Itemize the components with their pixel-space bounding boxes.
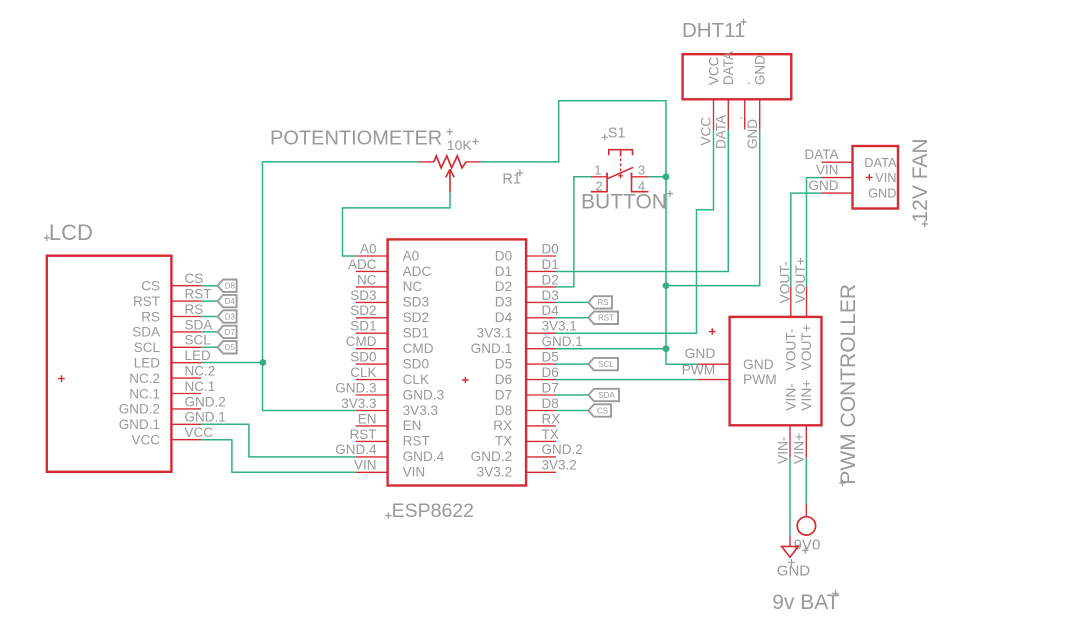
wire DHT11 VCC to ESP 3V3.1 [556, 130, 714, 334]
svg-text:VIN: VIN [816, 162, 839, 177]
svg-text:SD1: SD1 [350, 319, 376, 334]
9v BAT title label [772, 590, 839, 614]
potentiometer R1 resistor body [419, 156, 481, 193]
wire LCD VCC to ESP VIN [201, 440, 356, 473]
svg-text:VCC: VCC [131, 433, 160, 448]
net flag D4 [218, 295, 237, 307]
wire net CS to flag D8 [201, 285, 218, 287]
ground symbol GND [777, 536, 811, 580]
svg-text:POTENTIOMETER: POTENTIOMETER [270, 127, 442, 149]
wire LCD LED pin to junction [201, 362, 263, 364]
DHT11 pin stubs and labels [699, 99, 760, 149]
svg-text:VIN+: VIN+ [799, 380, 814, 411]
svg-text:D4: D4 [542, 303, 560, 318]
svg-text:CS: CS [597, 406, 608, 415]
svg-text:GND.2: GND.2 [119, 402, 160, 417]
svg-text:SCL: SCL [134, 340, 161, 355]
PWM CONTROLLER title label (rotated) [837, 284, 860, 486]
net flag SCL [588, 358, 618, 370]
svg-text:GND.2: GND.2 [185, 394, 226, 409]
svg-text:DATA: DATA [804, 147, 838, 162]
svg-text:CS: CS [185, 271, 204, 286]
svg-text:GND: GND [753, 55, 768, 85]
svg-text:SDA: SDA [132, 325, 160, 340]
svg-text:NC.2: NC.2 [129, 371, 160, 386]
wire button pin 1 to ESP D2 [556, 177, 591, 287]
svg-text:CLK: CLK [350, 365, 376, 380]
PWM controller pin stubs and labels [682, 257, 808, 464]
svg-text:1: 1 [594, 163, 601, 178]
svg-text:D8: D8 [542, 396, 559, 411]
svg-text:TX: TX [542, 427, 559, 442]
svg-text:D3: D3 [225, 312, 236, 321]
junction node LED net [260, 359, 267, 366]
svg-text:CMD: CMD [346, 334, 377, 349]
svg-text:10K: 10K [447, 137, 473, 153]
svg-text:.: . [738, 81, 753, 85]
svg-text:SD3: SD3 [403, 295, 429, 310]
svg-text:ADC: ADC [348, 257, 377, 272]
svg-text:SD0: SD0 [403, 356, 430, 371]
svg-text:RS: RS [185, 302, 204, 317]
wire PWM VIN+ down to 9V0 supply [805, 458, 807, 504]
wire DHT11 GND down to ground net junction [666, 130, 760, 286]
svg-text:LED: LED [134, 356, 161, 371]
svg-text:GND: GND [777, 563, 811, 580]
net flag SDA [588, 389, 619, 401]
wire junction down to ESP 3V3.3 [263, 363, 356, 411]
svg-text:D8: D8 [225, 282, 236, 291]
svg-text:RST: RST [350, 427, 377, 442]
svg-text:EN: EN [403, 418, 422, 433]
svg-text:DATA: DATA [714, 115, 729, 149]
svg-text:GND.3: GND.3 [403, 387, 445, 402]
value label 10K [447, 137, 479, 153]
svg-text:3V3.2: 3V3.2 [477, 465, 513, 480]
wire net CS to flag [556, 410, 588, 412]
svg-text:VIN-: VIN- [775, 436, 790, 464]
svg-text:3V3.2: 3V3.2 [542, 458, 577, 473]
svg-text:GND.1: GND.1 [542, 334, 583, 349]
svg-text:RST: RST [598, 314, 614, 323]
svg-text:D7: D7 [225, 328, 235, 337]
svg-text:3V3.3: 3V3.3 [403, 403, 439, 418]
svg-text:GND.1: GND.1 [471, 341, 513, 356]
wire ground net vertical from button to PWM GND [666, 177, 697, 364]
svg-text:SD0: SD0 [350, 350, 376, 365]
sensor DHT11 body [683, 51, 792, 99]
svg-text:CMD: CMD [403, 341, 434, 356]
svg-text:SD2: SD2 [350, 303, 376, 318]
svg-text:EN: EN [358, 411, 377, 426]
S1 designator label [602, 126, 626, 142]
svg-text:2: 2 [595, 178, 602, 193]
svg-text:GND: GND [743, 357, 774, 372]
svg-text:D5: D5 [495, 356, 512, 371]
svg-text:GND: GND [809, 178, 839, 193]
wire LCD GND.1 to ESP GND.4 [201, 424, 356, 457]
ESP8622 right pin stubs and labels [526, 241, 583, 472]
svg-text:4: 4 [638, 178, 645, 193]
wire potentiometer left lead down to LED junction [263, 162, 419, 363]
svg-text:3V3.1: 3V3.1 [542, 319, 577, 334]
svg-text:PWM: PWM [743, 372, 777, 387]
wire net SDA to flag [556, 394, 588, 396]
svg-text:VIN: VIN [875, 170, 896, 185]
svg-text:9v BAT: 9v BAT [772, 591, 839, 614]
svg-text:DATA: DATA [864, 155, 897, 170]
svg-text:D0: D0 [495, 248, 513, 263]
svg-text:SD3: SD3 [350, 288, 376, 303]
svg-text:D7: D7 [495, 387, 512, 402]
svg-text:D0: D0 [542, 241, 559, 256]
wire net SCL to flag [556, 363, 588, 365]
svg-text:NC.2: NC.2 [185, 364, 216, 379]
svg-text:RST: RST [185, 287, 212, 302]
svg-text:DHT11: DHT11 [682, 19, 745, 42]
wire ESP GND.1 to ground net [556, 348, 666, 350]
svg-text:D2: D2 [542, 272, 559, 287]
wire 12V FAN VIN to PWM VOUT+ [807, 178, 822, 287]
svg-text:LCD: LCD [49, 220, 93, 245]
svg-text:CLK: CLK [403, 372, 429, 387]
net flag RST [588, 312, 618, 324]
svg-text:NC: NC [357, 272, 377, 287]
svg-text:VCC: VCC [699, 117, 714, 146]
wire net RST to flag D4 [201, 300, 218, 302]
svg-text:ADC: ADC [403, 264, 432, 279]
svg-text:D6: D6 [495, 372, 512, 387]
DHT11 title label [682, 19, 747, 43]
svg-text:D3: D3 [495, 295, 512, 310]
designator label R1 [502, 170, 523, 188]
BUTTON title label [581, 190, 673, 213]
svg-text:NC.1: NC.1 [129, 386, 160, 401]
svg-text:NC.1: NC.1 [185, 379, 216, 394]
wire 12V FAN GND to PWM VOUT- [791, 193, 822, 286]
svg-text:SDA: SDA [598, 391, 615, 400]
svg-text:SCL: SCL [598, 360, 614, 369]
svg-text:SCL: SCL [185, 333, 212, 348]
svg-text:PWM CONTROLLER: PWM CONTROLLER [837, 284, 860, 485]
junction node ESP GND.1 [663, 345, 670, 352]
junction node button pin 3 ground net [663, 173, 670, 180]
svg-text:VIN-: VIN- [783, 383, 798, 411]
net flag D8 [218, 280, 237, 292]
svg-text:RX: RX [542, 411, 561, 426]
svg-text:VCC: VCC [185, 425, 214, 440]
svg-text:D1: D1 [495, 264, 512, 279]
svg-text:LED: LED [185, 348, 212, 363]
wire potentiometer right lead up and over to button pin 3 [481, 101, 666, 177]
svg-text:GND.4: GND.4 [335, 442, 377, 457]
svg-text:SD2: SD2 [403, 310, 429, 325]
svg-text:RX: RX [493, 418, 512, 433]
wire net RS to flag [556, 301, 588, 303]
svg-text:TX: TX [495, 434, 512, 449]
svg-text:3: 3 [638, 163, 645, 178]
fan module body [853, 146, 899, 209]
svg-text:GND: GND [745, 119, 760, 149]
svg-text:VIN: VIN [354, 458, 377, 473]
12V FAN title label (rotated) [909, 138, 932, 227]
wire net RST to flag [556, 317, 588, 319]
svg-text:RS: RS [598, 298, 609, 307]
wire net SDA to flag D7 [201, 331, 218, 333]
svg-text:S1: S1 [608, 126, 626, 142]
svg-text:VCC: VCC [706, 56, 721, 85]
svg-text:GND.2: GND.2 [542, 442, 583, 457]
svg-text:.: . [730, 116, 745, 120]
svg-text:A0: A0 [360, 241, 377, 256]
wire button pin 3 to junction [649, 176, 667, 178]
svg-text:ESP8622: ESP8622 [392, 500, 474, 522]
svg-text:VOUT-: VOUT- [783, 328, 798, 370]
net flag D3 [218, 310, 237, 322]
wire ESP D6 to PWM pin [556, 379, 697, 381]
svg-text:D8: D8 [495, 403, 512, 418]
svg-text:D7: D7 [542, 380, 559, 395]
net flag D7 [218, 326, 237, 338]
svg-text:RS: RS [141, 309, 160, 324]
net flag D5 [218, 341, 237, 353]
svg-text:DATA: DATA [721, 51, 736, 85]
svg-text:R1: R1 [502, 172, 521, 188]
svg-text:D1: D1 [542, 257, 559, 272]
LCD title label [44, 220, 93, 245]
wire PWM VIN- down to ground symbol [789, 458, 791, 536]
svg-text:GND.4: GND.4 [403, 449, 445, 464]
ESP8622 left pin stubs and labels [335, 241, 387, 472]
net flag CS [588, 404, 611, 416]
POTENTIOMETER title label [270, 127, 453, 149]
PWM controller module body [730, 317, 822, 425]
junction node DHT GND [663, 282, 670, 289]
svg-text:RST: RST [133, 294, 160, 309]
svg-text:3V3.3: 3V3.3 [341, 396, 376, 411]
svg-text:3V3.1: 3V3.1 [477, 326, 513, 341]
svg-text:RST: RST [403, 434, 430, 449]
svg-text:NC: NC [403, 279, 423, 294]
LCD pin stubs and pin name labels [171, 271, 225, 440]
svg-text:GND: GND [868, 186, 896, 201]
svg-text:SDA: SDA [185, 317, 213, 332]
wire net SCL to flag D5 [201, 346, 218, 348]
svg-text:GND.2: GND.2 [471, 449, 513, 464]
svg-text:GND.1: GND.1 [119, 417, 160, 432]
svg-text:D3: D3 [542, 288, 559, 303]
svg-text:BUTTON: BUTTON [581, 191, 667, 214]
svg-text:VIN: VIN [403, 465, 426, 480]
wire potentiometer wiper to ESP A0 [343, 193, 451, 256]
svg-text:D4: D4 [495, 310, 513, 325]
pushbutton S1 symbol [591, 150, 649, 192]
svg-text:D5: D5 [225, 343, 236, 352]
ESP8622 title label [385, 500, 474, 522]
svg-text:A0: A0 [403, 248, 420, 263]
supply symbol 9V0 [794, 504, 821, 554]
svg-text:D2: D2 [495, 279, 512, 294]
svg-text:D4: D4 [225, 297, 236, 306]
svg-text:D6: D6 [542, 365, 559, 380]
wire DHT11 DATA to ESP D1 [556, 130, 728, 272]
svg-text:VOUT+: VOUT+ [799, 324, 814, 370]
svg-text:GND.3: GND.3 [335, 380, 376, 395]
12V FAN pin stubs and labels [804, 147, 852, 193]
svg-text:GND.1: GND.1 [185, 410, 226, 425]
pin number labels 1 2 3 4 [594, 163, 645, 194]
svg-text:GND: GND [685, 346, 716, 361]
svg-text:CS: CS [141, 279, 160, 294]
net flag RS [588, 296, 612, 308]
svg-text:VIN+: VIN+ [791, 433, 806, 464]
wire net RS to flag D3 [201, 316, 218, 318]
svg-text:SD1: SD1 [403, 326, 429, 341]
svg-text:12V FAN: 12V FAN [909, 138, 932, 222]
LCD module body [47, 256, 172, 472]
svg-text:D5: D5 [542, 350, 559, 365]
op-amp ESP8622 module body [388, 239, 526, 485]
PWM controller red origin cross [709, 328, 716, 335]
